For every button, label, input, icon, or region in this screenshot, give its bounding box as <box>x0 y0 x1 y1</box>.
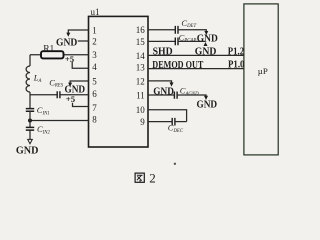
svg-text:GND: GND <box>195 47 217 58</box>
svg-text:15: 15 <box>136 37 146 47</box>
wire pin15 left of Cpcap <box>148 40 175 42</box>
resistor R1 <box>41 51 64 58</box>
wire pin15 right of Cpcap <box>178 40 205 42</box>
left rail mid <box>29 92 31 108</box>
wire pin4 from +5 <box>72 62 88 68</box>
stray dot <box>174 163 176 165</box>
svg-text:5: 5 <box>92 76 97 86</box>
svg-text:16: 16 <box>136 25 146 35</box>
wire pin8 <box>30 120 89 122</box>
svg-text:14: 14 <box>136 51 146 61</box>
arrow pin11 GND <box>204 96 208 100</box>
capacitor Cin2 <box>26 127 34 130</box>
svg-text:4: 4 <box>92 62 97 72</box>
wire pin16 right of Cdet down <box>178 30 206 32</box>
svg-text:SHD: SHD <box>153 47 173 58</box>
rail to bottom gnd <box>29 130 31 139</box>
svg-text:2: 2 <box>92 37 97 47</box>
svg-text:11: 11 <box>136 91 145 101</box>
arrow pin16 GND <box>204 31 208 35</box>
wire pin13 DEMOD to uP <box>148 68 244 70</box>
IC U1 box <box>89 16 149 147</box>
capacitor Cdec <box>172 118 175 126</box>
arrow pin15 up to GND <box>204 42 208 46</box>
wire pin2 <box>78 40 89 42</box>
wire pin1 to GND arrow <box>68 30 88 33</box>
wire pin9 right of Cdec <box>175 121 187 123</box>
svg-text:13: 13 <box>136 62 146 72</box>
arrow pin1 GND <box>66 33 70 37</box>
wire pin10 down <box>148 110 187 122</box>
svg-text:+5: +5 <box>66 94 76 104</box>
inductor L1 <box>26 66 30 92</box>
svg-text:DEMOD OUT: DEMOD OUT <box>152 60 203 71</box>
microprocessor uP box <box>244 4 278 155</box>
wire pin5 to GND arrow <box>70 81 88 83</box>
junction dot <box>28 119 32 123</box>
figure caption glyph 图 <box>135 173 144 182</box>
svg-text:9: 9 <box>140 117 145 127</box>
arrow pin12 GND <box>170 82 174 86</box>
left rail upper <box>29 55 31 66</box>
svg-text:u1: u1 <box>91 7 100 17</box>
svg-text:+5: +5 <box>65 54 75 64</box>
svg-text:12: 12 <box>136 76 145 86</box>
wire pin3 through R1 to left rail <box>30 54 89 56</box>
svg-text:1: 1 <box>92 26 97 36</box>
wire pin14 SHD to uP <box>148 54 244 56</box>
wire pin6 right of Cres <box>60 94 88 96</box>
svg-text:GND: GND <box>197 33 218 44</box>
wire pin6 left of Cres <box>30 94 57 96</box>
rail between Cin1 and junction <box>29 111 31 120</box>
svg-text:3: 3 <box>92 50 97 60</box>
svg-text:6: 6 <box>92 89 97 99</box>
wire pin7 from +5 <box>73 103 89 107</box>
rail junction to Cin2 <box>29 121 31 128</box>
svg-text:P1.0: P1.0 <box>228 59 245 70</box>
arrow pin5 GND <box>68 83 72 87</box>
svg-text:P1.2: P1.2 <box>228 46 244 57</box>
svg-text:R1: R1 <box>43 44 54 54</box>
svg-text:GND: GND <box>153 87 174 98</box>
wire pin16 left of Cdet <box>148 29 175 31</box>
svg-text:GND: GND <box>56 38 77 49</box>
svg-text:GND: GND <box>197 99 218 110</box>
wire pin9 left of Cdec <box>148 121 172 123</box>
wire pin11 right of Cagnd down <box>177 95 206 96</box>
hollow arrow bottom GND <box>28 139 33 143</box>
capacitor Cdet <box>175 26 178 34</box>
svg-text:GND: GND <box>16 146 39 157</box>
wire pin11 left of Cagnd <box>148 94 174 96</box>
svg-text:µP: µP <box>258 66 268 76</box>
svg-text:10: 10 <box>136 105 146 115</box>
capacitor Cagnd <box>174 92 177 99</box>
svg-text:2: 2 <box>149 171 156 186</box>
capacitor Cin1 <box>26 109 34 112</box>
wire pin12 to GND arrow <box>148 81 172 83</box>
capacitor Cpcap <box>175 38 178 46</box>
capacitor Cres <box>57 91 60 98</box>
svg-text:8: 8 <box>92 114 97 124</box>
svg-text:7: 7 <box>92 103 97 113</box>
